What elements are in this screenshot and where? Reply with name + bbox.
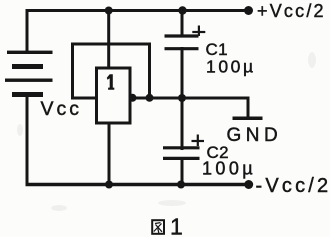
wire C2 bottom lead: [181, 157, 184, 186]
junction dot top bus / C1: [178, 6, 186, 14]
svg-text:+Vcc/2: +Vcc/2: [257, 1, 326, 21]
battery positive lead wire: [26, 9, 29, 52]
svg-text:Vcc: Vcc: [41, 98, 83, 120]
wire mid rail: [148, 97, 249, 100]
caption glyph tu (figure): [152, 220, 164, 234]
IC U1 box: [97, 68, 131, 123]
wire U1 input lead from top bus: [107, 11, 110, 69]
junction dot mid rail: [178, 94, 186, 102]
wire bottom bus: [26, 183, 250, 186]
svg-text:GND: GND: [227, 125, 283, 146]
terminal +Vcc/2: [244, 6, 253, 15]
label 1: [107, 74, 115, 90]
U1 outer loop rectangle: [73, 44, 150, 98]
ground bar: [233, 117, 263, 121]
capacitor C1: [165, 36, 199, 49]
wire top bus: [26, 9, 250, 12]
svg-text:1: 1: [170, 214, 183, 237]
C2 polarity plus: [192, 135, 205, 147]
faint scan smudges: [17, 52, 316, 211]
battery negative lead wire: [26, 96, 29, 186]
svg-text:100µ: 100µ: [202, 158, 256, 178]
svg-text:100µ: 100µ: [206, 56, 256, 76]
wire C1 to C2 link: [181, 47, 184, 150]
pin dot U1 right edge: [129, 94, 137, 102]
wire GND branch: [247, 97, 250, 118]
junction dot top bus / U1 input: [105, 7, 113, 15]
wire U1 bottom lead: [108, 123, 111, 186]
battery Vcc: [5, 51, 53, 97]
terminal -Vcc/2: [244, 180, 253, 189]
svg-text:-Vcc/2: -Vcc/2: [256, 175, 330, 197]
capacitor C2: [163, 148, 200, 159]
junction dot bottom bus / U1: [105, 181, 113, 189]
junction dot loop right: [146, 94, 154, 102]
wire C1 top lead: [181, 9, 184, 37]
junction dot bottom bus / C2: [177, 181, 185, 189]
C1 polarity plus: [192, 26, 205, 37]
